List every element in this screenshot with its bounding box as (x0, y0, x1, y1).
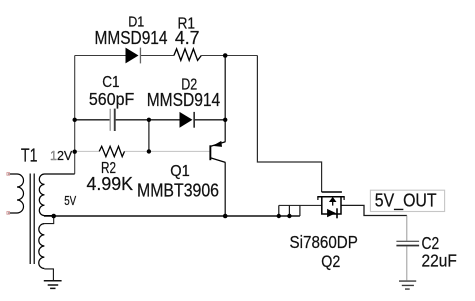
node dot pin S2 (287, 214, 291, 218)
collector diagonal (210, 158, 225, 163)
svg-text:MMSD914: MMSD914 (147, 90, 221, 110)
svg-text:5V_OUT: 5V_OUT (375, 189, 437, 211)
svg-text:MMBT3906: MMBT3906 (137, 181, 219, 201)
gate bar (322, 191, 342, 193)
wire gate drive path from top rail to Q2 gate (257, 56, 321, 193)
wire source wire y=205.4 from pins to Q2 (279, 204, 322, 206)
node dot left rail / R2 wire (73, 150, 77, 154)
node dot top rail / gate branch (223, 53, 228, 58)
svg-text:Q2: Q2 (321, 253, 340, 271)
svg-text:4.99K: 4.99K (87, 174, 134, 194)
mosfet Q2 (317, 192, 344, 218)
secondary upper winding (39, 174, 74, 216)
node dot Q1 collector / 5V rail (223, 214, 228, 219)
diode D1 (126, 48, 142, 64)
svg-text:5V: 5V (64, 193, 76, 208)
wire left rail vertical x=74.7 (74, 56, 76, 174)
emitter arrow (213, 141, 222, 147)
core lines (30, 174, 34, 265)
svg-text:4.7: 4.7 (175, 28, 200, 48)
wire C2 stem gray (406, 216, 408, 281)
node dot R2 / vertical link (147, 149, 151, 153)
channel rail (317, 196, 344, 198)
wire 5V secondary rail y=216 (44, 215, 300, 217)
body diode arrow up (329, 197, 337, 202)
svg-text:22uF: 22uF (422, 250, 457, 270)
svg-text:12V: 12V (50, 148, 73, 163)
pin marker primary bottom (7, 212, 10, 215)
wire secondary lower section link (44, 216, 53, 224)
primary winding (9, 174, 24, 213)
emitter diagonal (211, 142, 226, 147)
pins S1 S2 of Q2 (279, 205, 300, 216)
wire secondary bottom to ground (44, 269, 53, 280)
wire Q1 collector vertical x=225.2 (224, 162, 226, 216)
node dot D2 / Q1 emitter (223, 118, 227, 122)
svg-text:Si7860DP: Si7860DP (290, 232, 358, 252)
node dot C1 / D2 junction (147, 118, 151, 122)
svg-text:T1: T1 (21, 145, 38, 165)
transistor Q1 (209, 141, 225, 163)
secondary lower winding (39, 224, 45, 269)
diode D2 (180, 112, 195, 128)
channel arrow right (327, 209, 336, 217)
resistor R1 zigzag (174, 49, 201, 61)
body box (322, 197, 341, 214)
pin marker primary top (7, 173, 10, 176)
node dot transformer tap (51, 214, 56, 219)
rail end ticks (318, 197, 344, 200)
svg-text:Q1: Q1 (170, 163, 190, 180)
base bar (209, 145, 211, 160)
resistor R2 zigzag (99, 146, 124, 156)
wire C1/D2 horizontal y=120 (75, 119, 226, 121)
capacitor C1 (110, 109, 116, 131)
svg-text:560pF: 560pF (89, 89, 134, 109)
wire top rail horizontal y=55.5 (75, 55, 258, 57)
capacitor C2 (396, 241, 419, 247)
wire vertical x=148.9 C1/D2 node to R2 node (148, 120, 150, 152)
port box 5V_OUT (370, 190, 444, 211)
wire vertical x=225.2 top rail to D2 to Q1 emitter (224, 56, 226, 142)
svg-text:MMSD914: MMSD914 (95, 28, 168, 48)
wire Q2 source to output step (341, 205, 407, 215)
node dot left rail / C1 wire (73, 118, 77, 122)
node dot pin S1 (277, 214, 281, 218)
ground C2 (399, 281, 416, 289)
transformer T1 (9, 174, 75, 269)
ground transformer (44, 281, 62, 289)
wire R2 base gray horizontal y=151.4 (75, 150, 210, 152)
